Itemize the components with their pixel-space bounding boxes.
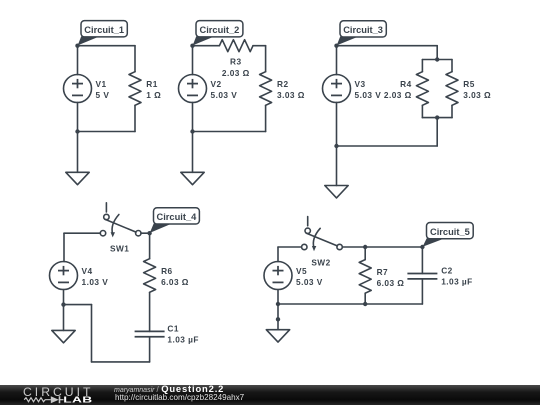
wire ground stem circuit 1 [77,132,79,173]
node label Circuit_3 callout [337,21,387,46]
svg-text:1 Ω: 1 Ω [146,90,161,100]
svg-text:V3: V3 [355,79,366,89]
resistor R2 [260,72,272,106]
svg-text:2.03 Ω: 2.03 Ω [384,90,412,100]
resistor R4 [416,72,428,106]
node Circuit_1 [75,44,79,48]
node junction circuit 5 bottom [276,302,280,306]
wire ground stem circuit 3 [336,146,338,186]
svg-text:5.03 V: 5.03 V [355,90,382,100]
wire V1 top lead [77,46,79,75]
voltage source V2 [179,75,207,103]
wire parallel top bracket [422,59,452,61]
wire bottom rail circuit 2 [193,131,266,133]
wire R6 to C1 [149,292,151,331]
wire down to V4 [63,233,65,261]
node junction parallel bottom [435,115,439,119]
node label Circuit_5 callout [423,223,474,247]
wire C2 top lead [421,247,423,274]
footer credit text [114,384,244,402]
node junction ground stem [276,317,280,321]
node junction R7 bottom [363,302,367,306]
node junction R7 top [363,245,367,249]
node label Circuit_1 callout [78,21,128,46]
svg-text:C1: C1 [167,323,179,333]
wire R7 bottom lead [364,293,366,304]
node junction circuit 3 bottom [334,144,338,148]
wire C2 bottom lead [421,279,423,304]
wire R5 bottom lead [451,105,453,117]
voltage source V5 [264,262,292,290]
wire R2 bottom lead [265,105,267,131]
wire R3 to corner [253,45,266,47]
node Circuit_5 [420,245,424,249]
label C1 1.03 uF [167,323,198,344]
wire parallel pair down [436,118,438,146]
wire V2 bottom lead [192,102,194,131]
label R5 3.03 ohm [463,79,491,100]
wire down to V5 [277,247,279,262]
svg-text:C2: C2 [441,266,453,276]
resistor R5 [446,72,458,106]
svg-text:R3: R3 [230,57,242,67]
wire node to R3 [193,45,220,47]
capacitor C1 [135,331,165,336]
label R6 6.03 ohm [161,266,189,287]
svg-text:LAB: LAB [63,396,92,405]
svg-text:R2: R2 [277,79,289,89]
wire R2 top lead [265,46,267,72]
svg-text:V1: V1 [96,79,107,89]
ground circuit 5 [266,330,289,342]
CircuitLab logo [15,383,110,405]
svg-text:1.03 V: 1.03 V [82,277,109,287]
wire top rail circuit 3 [337,45,438,47]
node label Circuit_2 callout [193,21,243,46]
svg-text:3.03 Ω: 3.03 Ω [277,90,305,100]
label C2 1.03 uF [441,266,472,287]
node Circuit_4 [147,231,151,235]
svg-text:2.03 Ω: 2.03 Ω [222,68,250,78]
wire R1 top lead [134,46,136,72]
svg-text:R7: R7 [377,267,389,277]
wire V5 to SW2 [278,246,302,248]
wire V4 to SW1 [64,232,100,234]
svg-text:Circuit_4: Circuit_4 [157,212,198,222]
voltage source V3 [323,75,351,103]
svg-text:V5: V5 [296,266,307,276]
wire corner down to parallel pair [436,46,438,60]
capacitor C2 [407,274,437,279]
wire bottom rail circuit 3 [337,145,438,147]
svg-text:R6: R6 [161,266,173,276]
svg-text:Circuit_3: Circuit_3 [343,25,383,35]
label R7 6.03 ohm [377,267,405,288]
node junction circuit 1 bottom [75,129,79,133]
node Circuit_3 [334,44,338,48]
resistor R7 [359,260,371,294]
wire V1 bottom lead [77,102,79,131]
wire V3 bottom lead [336,102,338,146]
wire bottom rail circuit 5 [278,303,422,305]
wire node to riser [64,304,92,306]
svg-text:Circuit_1: Circuit_1 [84,25,124,35]
svg-text:R1: R1 [146,79,158,89]
svg-text:SW1: SW1 [110,244,129,254]
switch SW2 [302,217,343,268]
wire bottom rail circuit 4 [92,361,150,363]
svg-text:6.03 Ω: 6.03 Ω [377,278,405,288]
voltage source V4 [50,262,78,290]
ground circuit 4 [52,330,75,342]
label V4 1.03 V [82,266,109,287]
svg-text:5 V: 5 V [96,90,110,100]
node label Circuit_4 callout [150,208,200,233]
footer bar [0,385,540,405]
wire C1 bottom lead [149,337,151,362]
svg-text:5.03 V: 5.03 V [211,90,238,100]
svg-text:SW2: SW2 [311,257,330,267]
resistor R1 [129,72,141,106]
wire ground stem circuit 2 [192,132,194,173]
ground circuit 3 [325,186,348,198]
switch SW1 [100,203,141,254]
resistor R3 [219,40,253,52]
svg-text:V2: V2 [211,79,222,89]
svg-text:5.03 V: 5.03 V [296,277,323,287]
label R4 2.03 ohm [384,79,412,100]
svg-text:Circuit_2: Circuit_2 [200,25,240,35]
svg-text:V4: V4 [82,266,93,276]
resistor R6 [144,259,156,293]
wire parallel bottom bracket [422,117,452,119]
svg-text:3.03 Ω: 3.03 Ω [463,90,491,100]
svg-text:6.03 Ω: 6.03 Ω [161,277,189,287]
node junction circuit 4 bottom [61,302,65,306]
node junction circuit 2 bottom [190,129,194,133]
wire bottom rail circuit 1 [78,131,136,133]
wire left riser circuit 4 [91,305,93,362]
node Circuit_2 [190,44,194,48]
wire R4 bottom lead [421,105,423,117]
ground circuit 1 [66,172,89,184]
wire top rail circuit 1 [78,45,136,47]
wire V3 top lead [336,46,338,75]
label R2 3.03 ohm [277,79,305,100]
node junction parallel top [435,57,439,61]
wire R4 top lead [421,60,423,72]
label V2 5.03 V [211,79,238,100]
label R3 2.03 ohm [222,57,250,79]
wire SW1 to node [141,232,150,234]
wire R1 bottom lead [134,105,136,131]
svg-text:1.03 µF: 1.03 µF [167,334,198,344]
wire V4 bottom lead and ground stem [63,290,65,331]
label V5 5.03 V [296,266,323,287]
svg-text:R4: R4 [400,79,412,89]
svg-text:1.03 µF: 1.03 µF [441,277,472,287]
wire V2 top lead [192,46,194,75]
voltage source V1 [64,75,92,103]
label R1 1 ohm [146,79,161,100]
ground circuit 2 [181,172,204,184]
wire R7 top lead [364,247,366,260]
svg-text:R5: R5 [463,79,475,89]
wire SW2 to C2 node [342,246,422,248]
wire R6 top lead [149,233,151,259]
label V1 5 V [96,79,110,100]
wire R5 top lead [451,60,453,72]
label V3 5.03 V [355,79,382,100]
wire V5 bottom lead [277,290,279,305]
svg-text:Circuit_5: Circuit_5 [430,227,470,237]
wire ground stem circuit 5 [277,304,279,330]
